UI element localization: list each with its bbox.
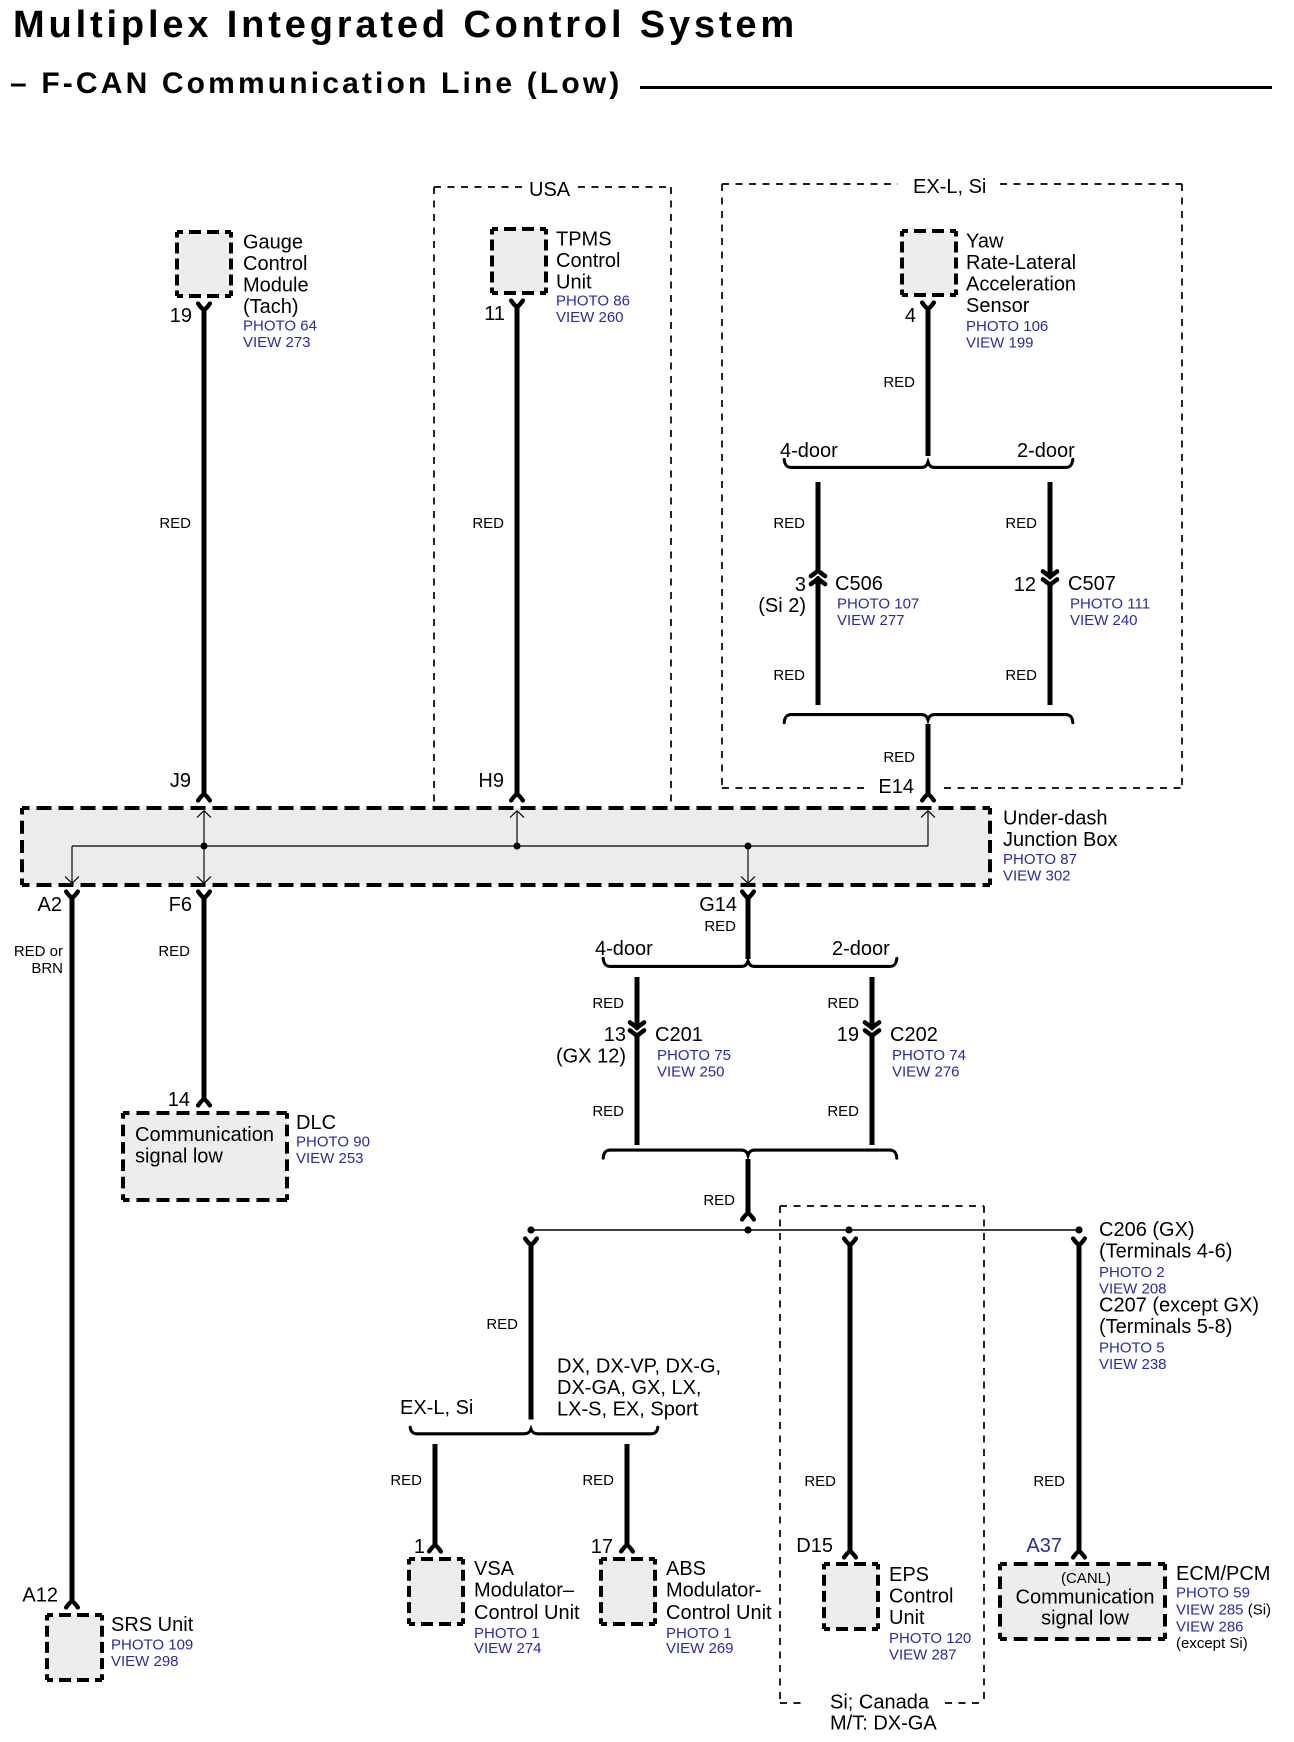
- internal wire to A2: [71, 846, 73, 884]
- svg-text:(Terminals 4-6): (Terminals 4-6): [1099, 1241, 1232, 1263]
- junction dot: [1075, 1226, 1082, 1233]
- svg-text:VIEW 260: VIEW 260: [556, 309, 624, 326]
- svg-text:VIEW 286: VIEW 286: [1176, 1619, 1244, 1636]
- wire Yaw sensor pin4 down, RED: [926, 307, 931, 456]
- svg-text:PHOTO 75: PHOTO 75: [657, 1047, 731, 1064]
- svg-text:VIEW 274: VIEW 274: [474, 1640, 542, 1657]
- wire merge down to junction line, RED: [746, 1159, 751, 1213]
- svg-text:DX, DX-VP, DX-G,: DX, DX-VP, DX-G,: [557, 1356, 721, 1378]
- wire Gauge Control Module pin19 to J9, RED: [202, 308, 207, 795]
- svg-text:E14: E14: [878, 776, 914, 798]
- svg-text:Junction Box: Junction Box: [1003, 829, 1118, 851]
- svg-text:RED: RED: [159, 515, 191, 532]
- svg-text:PHOTO 5: PHOTO 5: [1099, 1340, 1165, 1357]
- svg-text:C202: C202: [890, 1024, 938, 1046]
- svg-text:PHOTO 106: PHOTO 106: [966, 318, 1048, 335]
- svg-text:A12: A12: [22, 1585, 58, 1607]
- svg-text:RED: RED: [472, 515, 504, 532]
- title rule: [640, 86, 1272, 89]
- component ECM/PCM (CANL Communication signal low): [1000, 1564, 1165, 1639]
- svg-text:– F-CAN Communication Line (Lo: – F-CAN Communication Line (Low): [10, 67, 622, 100]
- wire merge to E14, RED: [926, 724, 931, 795]
- svg-text:RED: RED: [827, 1103, 859, 1120]
- svg-text:Control: Control: [889, 1586, 953, 1608]
- svg-text:RED: RED: [883, 374, 915, 391]
- svg-text:17: 17: [591, 1536, 613, 1558]
- svg-text:RED: RED: [804, 1473, 836, 1490]
- svg-text:(Terminals 5-8): (Terminals 5-8): [1099, 1316, 1232, 1338]
- component SRS Unit: [47, 1615, 102, 1680]
- connector C506: [811, 570, 825, 584]
- svg-text:VIEW 269: VIEW 269: [666, 1640, 734, 1657]
- terminal fork below junction box at G14: [742, 892, 754, 899]
- svg-text:RED: RED: [486, 1316, 518, 1333]
- svg-text:VIEW 199: VIEW 199: [966, 335, 1034, 352]
- svg-text:PHOTO 59: PHOTO 59: [1176, 1585, 1250, 1602]
- wire 4-door branch lower, RED: [816, 581, 821, 705]
- svg-text:signal low: signal low: [1041, 1608, 1129, 1630]
- svg-text:C207 (except GX): C207 (except GX): [1099, 1295, 1259, 1317]
- wire to ECM/PCM, RED: [1077, 1243, 1082, 1551]
- svg-text:13: 13: [604, 1024, 626, 1046]
- svg-text:VIEW 238: VIEW 238: [1099, 1356, 1167, 1373]
- terminal fork below junction line (VSA branch): [525, 1239, 537, 1246]
- svg-text:Control: Control: [556, 250, 620, 272]
- svg-text:J9: J9: [170, 770, 191, 792]
- svg-text:Control Unit: Control Unit: [474, 1602, 580, 1624]
- terminal fork at EPS Control Unit: [844, 1551, 856, 1558]
- svg-text:19: 19: [837, 1024, 859, 1046]
- svg-text:Gauge: Gauge: [243, 232, 303, 254]
- internal wire E14: [927, 811, 929, 847]
- svg-text:Multiplex Integrated Control S: Multiplex Integrated Control System: [13, 4, 798, 46]
- wire G14 down, RED: [746, 896, 751, 959]
- svg-text:Module: Module: [243, 275, 309, 297]
- svg-text:VIEW 287: VIEW 287: [889, 1647, 957, 1664]
- component Gauge Control Module (Tach): [177, 232, 231, 296]
- svg-text:PHOTO 111: PHOTO 111: [1070, 596, 1150, 613]
- svg-text:DLC: DLC: [296, 1112, 336, 1134]
- svg-text:Rate-Lateral: Rate-Lateral: [966, 252, 1076, 274]
- svg-text:RED: RED: [592, 1103, 624, 1120]
- component EPS Control Unit: [824, 1564, 878, 1629]
- svg-text:EX-L, Si: EX-L, Si: [913, 176, 986, 198]
- svg-text:VIEW 298: VIEW 298: [111, 1653, 179, 1670]
- svg-text:Control Unit: Control Unit: [666, 1602, 772, 1624]
- svg-text:VSA: VSA: [474, 1558, 515, 1580]
- svg-text:(except Si): (except Si): [1176, 1635, 1248, 1652]
- svg-text:Control: Control: [243, 253, 307, 275]
- connector C507: [1043, 571, 1057, 585]
- svg-text:RED: RED: [1033, 1473, 1065, 1490]
- svg-text:RED: RED: [827, 995, 859, 1012]
- svg-text:(Tach): (Tach): [243, 296, 299, 318]
- svg-text:PHOTO 90: PHOTO 90: [296, 1134, 370, 1151]
- svg-text:VIEW 302: VIEW 302: [1003, 868, 1071, 885]
- svg-text:Modulator-: Modulator-: [666, 1580, 762, 1602]
- svg-text:12: 12: [1014, 574, 1036, 596]
- svg-text:RED: RED: [704, 918, 736, 935]
- component TPMS Control Unit: [492, 229, 546, 293]
- svg-text:Si; Canada: Si; Canada: [830, 1692, 930, 1714]
- connector C201: [630, 1022, 644, 1036]
- svg-text:C506: C506: [835, 573, 883, 595]
- terminal fork below junction box at F6: [198, 892, 210, 899]
- terminal fork at Gauge Control Module: [198, 304, 210, 311]
- svg-text:ECM/PCM: ECM/PCM: [1176, 1563, 1270, 1585]
- svg-text:RED: RED: [592, 995, 624, 1012]
- svg-text:4-door: 4-door: [780, 440, 838, 462]
- wire 2-door branch upper, RED: [870, 977, 875, 1027]
- svg-text:Unit: Unit: [556, 272, 592, 294]
- svg-text:M/T: DX-GA: M/T: DX-GA: [830, 1713, 937, 1735]
- svg-text:RED: RED: [773, 515, 805, 532]
- svg-text:Acceleration: Acceleration: [966, 274, 1076, 296]
- split bracket VSA/ABS: [410, 1427, 658, 1434]
- internal wire J9-F6: [203, 811, 205, 884]
- component VSA Modulator-Control Unit: [409, 1559, 463, 1624]
- junction dot: [745, 843, 752, 850]
- svg-text:BRN: BRN: [31, 960, 63, 977]
- svg-text:signal low: signal low: [135, 1146, 223, 1168]
- node E14: [872, 777, 920, 796]
- svg-text:H9: H9: [478, 770, 504, 792]
- split bracket 4-door / 2-door (middle): [603, 958, 897, 966]
- terminal fork at VSA Modulator-Control Unit: [429, 1545, 441, 1552]
- terminal fork below junction box at A2: [66, 892, 78, 899]
- svg-text:3: 3: [795, 574, 806, 596]
- svg-text:Yaw: Yaw: [966, 231, 1004, 253]
- svg-text:4: 4: [905, 305, 916, 327]
- svg-text:ABS: ABS: [666, 1558, 706, 1580]
- terminal fork at Yaw sensor: [922, 303, 934, 310]
- svg-text:Sensor: Sensor: [966, 295, 1030, 317]
- svg-text:(Si 2): (Si 2): [758, 595, 806, 617]
- connector C202: [865, 1022, 879, 1036]
- svg-text:14: 14: [168, 1089, 190, 1111]
- svg-text:RED: RED: [883, 749, 915, 766]
- svg-text:VIEW 253: VIEW 253: [296, 1150, 364, 1167]
- svg-text:11: 11: [484, 303, 505, 325]
- svg-text:PHOTO 107: PHOTO 107: [837, 596, 919, 613]
- wire 4-door branch upper, RED: [816, 482, 821, 570]
- terminal fork at TPMS Control Unit: [511, 301, 523, 308]
- wire 2-door branch upper, RED: [1048, 482, 1053, 576]
- svg-text:RED or: RED or: [14, 943, 63, 960]
- svg-text:Under-dash: Under-dash: [1003, 808, 1108, 830]
- wire A2 to SRS Unit, RED or BRN: [70, 896, 75, 1601]
- svg-text:C201: C201: [655, 1024, 703, 1046]
- junction box internal bus: [72, 845, 928, 847]
- junction dot: [845, 1226, 852, 1233]
- component ABS Modulator-Control Unit: [601, 1559, 655, 1624]
- wire VSA branch, RED: [433, 1444, 438, 1546]
- svg-text:19: 19: [170, 305, 192, 327]
- svg-text:LX-S, EX, Sport: LX-S, EX, Sport: [557, 1399, 699, 1421]
- svg-text:2-door: 2-door: [832, 938, 890, 960]
- svg-text:F6: F6: [169, 894, 192, 916]
- svg-text:4-door: 4-door: [595, 938, 653, 960]
- svg-text:PHOTO 64: PHOTO 64: [243, 318, 317, 335]
- wire TPMS pin11 to H9, RED: [515, 305, 520, 795]
- svg-text:A37: A37: [1026, 1535, 1062, 1557]
- svg-text:USA: USA: [529, 179, 571, 201]
- svg-text:VIEW 276: VIEW 276: [892, 1064, 960, 1081]
- terminal fork below junction line (ECM branch): [1073, 1239, 1085, 1246]
- svg-text:RED: RED: [1005, 667, 1037, 684]
- junction dot: [744, 1226, 751, 1233]
- svg-text:EPS: EPS: [889, 1564, 929, 1586]
- svg-text:TPMS: TPMS: [556, 229, 612, 251]
- svg-text:EX-L, Si: EX-L, Si: [400, 1397, 473, 1419]
- terminal fork at SRS Unit: [66, 1601, 78, 1608]
- merge bracket (middle): [603, 1150, 897, 1158]
- internal wire H9: [516, 811, 518, 847]
- wire 2-door branch lower, RED: [870, 1035, 875, 1145]
- svg-text:RED: RED: [1005, 515, 1037, 532]
- component Yaw Rate-Lateral Acceleration Sensor: [902, 231, 956, 295]
- terminal fork at E14: [922, 794, 934, 801]
- svg-text:1: 1: [414, 1536, 425, 1558]
- terminal fork at ECM/PCM: [1073, 1551, 1085, 1558]
- junction dot: [527, 1226, 534, 1233]
- svg-text:Unit: Unit: [889, 1607, 925, 1629]
- split bracket 4-door / 2-door (upper): [784, 459, 1073, 467]
- svg-text:VIEW 285 (Si): VIEW 285 (Si): [1176, 1602, 1271, 1619]
- wire 4-door branch upper, RED: [635, 977, 640, 1027]
- svg-text:G14: G14: [699, 894, 737, 916]
- svg-text:PHOTO 2: PHOTO 2: [1099, 1264, 1165, 1281]
- junction dot: [201, 843, 208, 850]
- svg-text:D15: D15: [796, 1535, 833, 1557]
- region box USA: [434, 187, 671, 806]
- terminal fork at J9: [198, 794, 210, 801]
- wire ABS branch, RED: [625, 1444, 630, 1546]
- svg-text:RED: RED: [582, 1472, 614, 1489]
- svg-text:Communication: Communication: [1016, 1587, 1155, 1609]
- junction line (thin distribution wire): [531, 1229, 1079, 1231]
- svg-text:C507: C507: [1068, 573, 1116, 595]
- svg-text:SRS Unit: SRS Unit: [111, 1614, 194, 1636]
- svg-text:VIEW 277: VIEW 277: [837, 612, 905, 629]
- region box EX-L, Si: [722, 184, 1182, 788]
- wire to EPS Control Unit, RED: [848, 1243, 853, 1551]
- svg-text:RED: RED: [390, 1472, 422, 1489]
- region box Si; Canada M/T: DX-GA: [780, 1206, 984, 1703]
- internal wire G14: [747, 846, 749, 884]
- Under-dash Junction Box: [22, 808, 990, 885]
- svg-text:PHOTO 74: PHOTO 74: [892, 1047, 966, 1064]
- svg-text:PHOTO 120: PHOTO 120: [889, 1630, 971, 1647]
- svg-text:VIEW 250: VIEW 250: [657, 1064, 725, 1081]
- terminal fork at ABS Modulator-Control Unit: [621, 1545, 633, 1552]
- svg-text:RED: RED: [773, 667, 805, 684]
- svg-text:Communication: Communication: [135, 1124, 274, 1146]
- svg-text:PHOTO 86: PHOTO 86: [556, 293, 630, 310]
- svg-text:Modulator–: Modulator–: [474, 1580, 575, 1602]
- wire down to VSA/ABS split, RED: [529, 1243, 534, 1420]
- svg-text:PHOTO 109: PHOTO 109: [111, 1637, 193, 1654]
- junction dot: [514, 843, 521, 850]
- svg-text:RED: RED: [703, 1192, 735, 1209]
- svg-text:A2: A2: [38, 894, 62, 916]
- terminal fork at H9: [511, 794, 523, 801]
- svg-text:2-door: 2-door: [1017, 440, 1075, 462]
- terminal fork above junction line: [742, 1213, 754, 1220]
- terminal fork at DLC: [198, 1099, 210, 1106]
- svg-text:(CANL): (CANL): [1061, 1570, 1111, 1587]
- svg-text:PHOTO 87: PHOTO 87: [1003, 851, 1077, 868]
- terminal fork below junction line (EPS branch): [844, 1239, 856, 1246]
- svg-text:RED: RED: [158, 943, 190, 960]
- wire F6 to DLC pin14, RED: [202, 896, 207, 1099]
- svg-text:VIEW 240: VIEW 240: [1070, 612, 1138, 629]
- wire 4-door branch lower, RED: [635, 1035, 640, 1145]
- svg-text:VIEW 273: VIEW 273: [243, 334, 311, 351]
- merge bracket (lower): [784, 715, 1073, 723]
- wire 2-door branch lower, RED: [1048, 584, 1053, 705]
- component DLC (Communication signal low): [123, 1113, 287, 1200]
- svg-text:(GX 12): (GX 12): [556, 1046, 626, 1068]
- svg-text:DX-GA, GX, LX,: DX-GA, GX, LX,: [557, 1377, 701, 1399]
- svg-text:C206 (GX): C206 (GX): [1099, 1219, 1195, 1241]
